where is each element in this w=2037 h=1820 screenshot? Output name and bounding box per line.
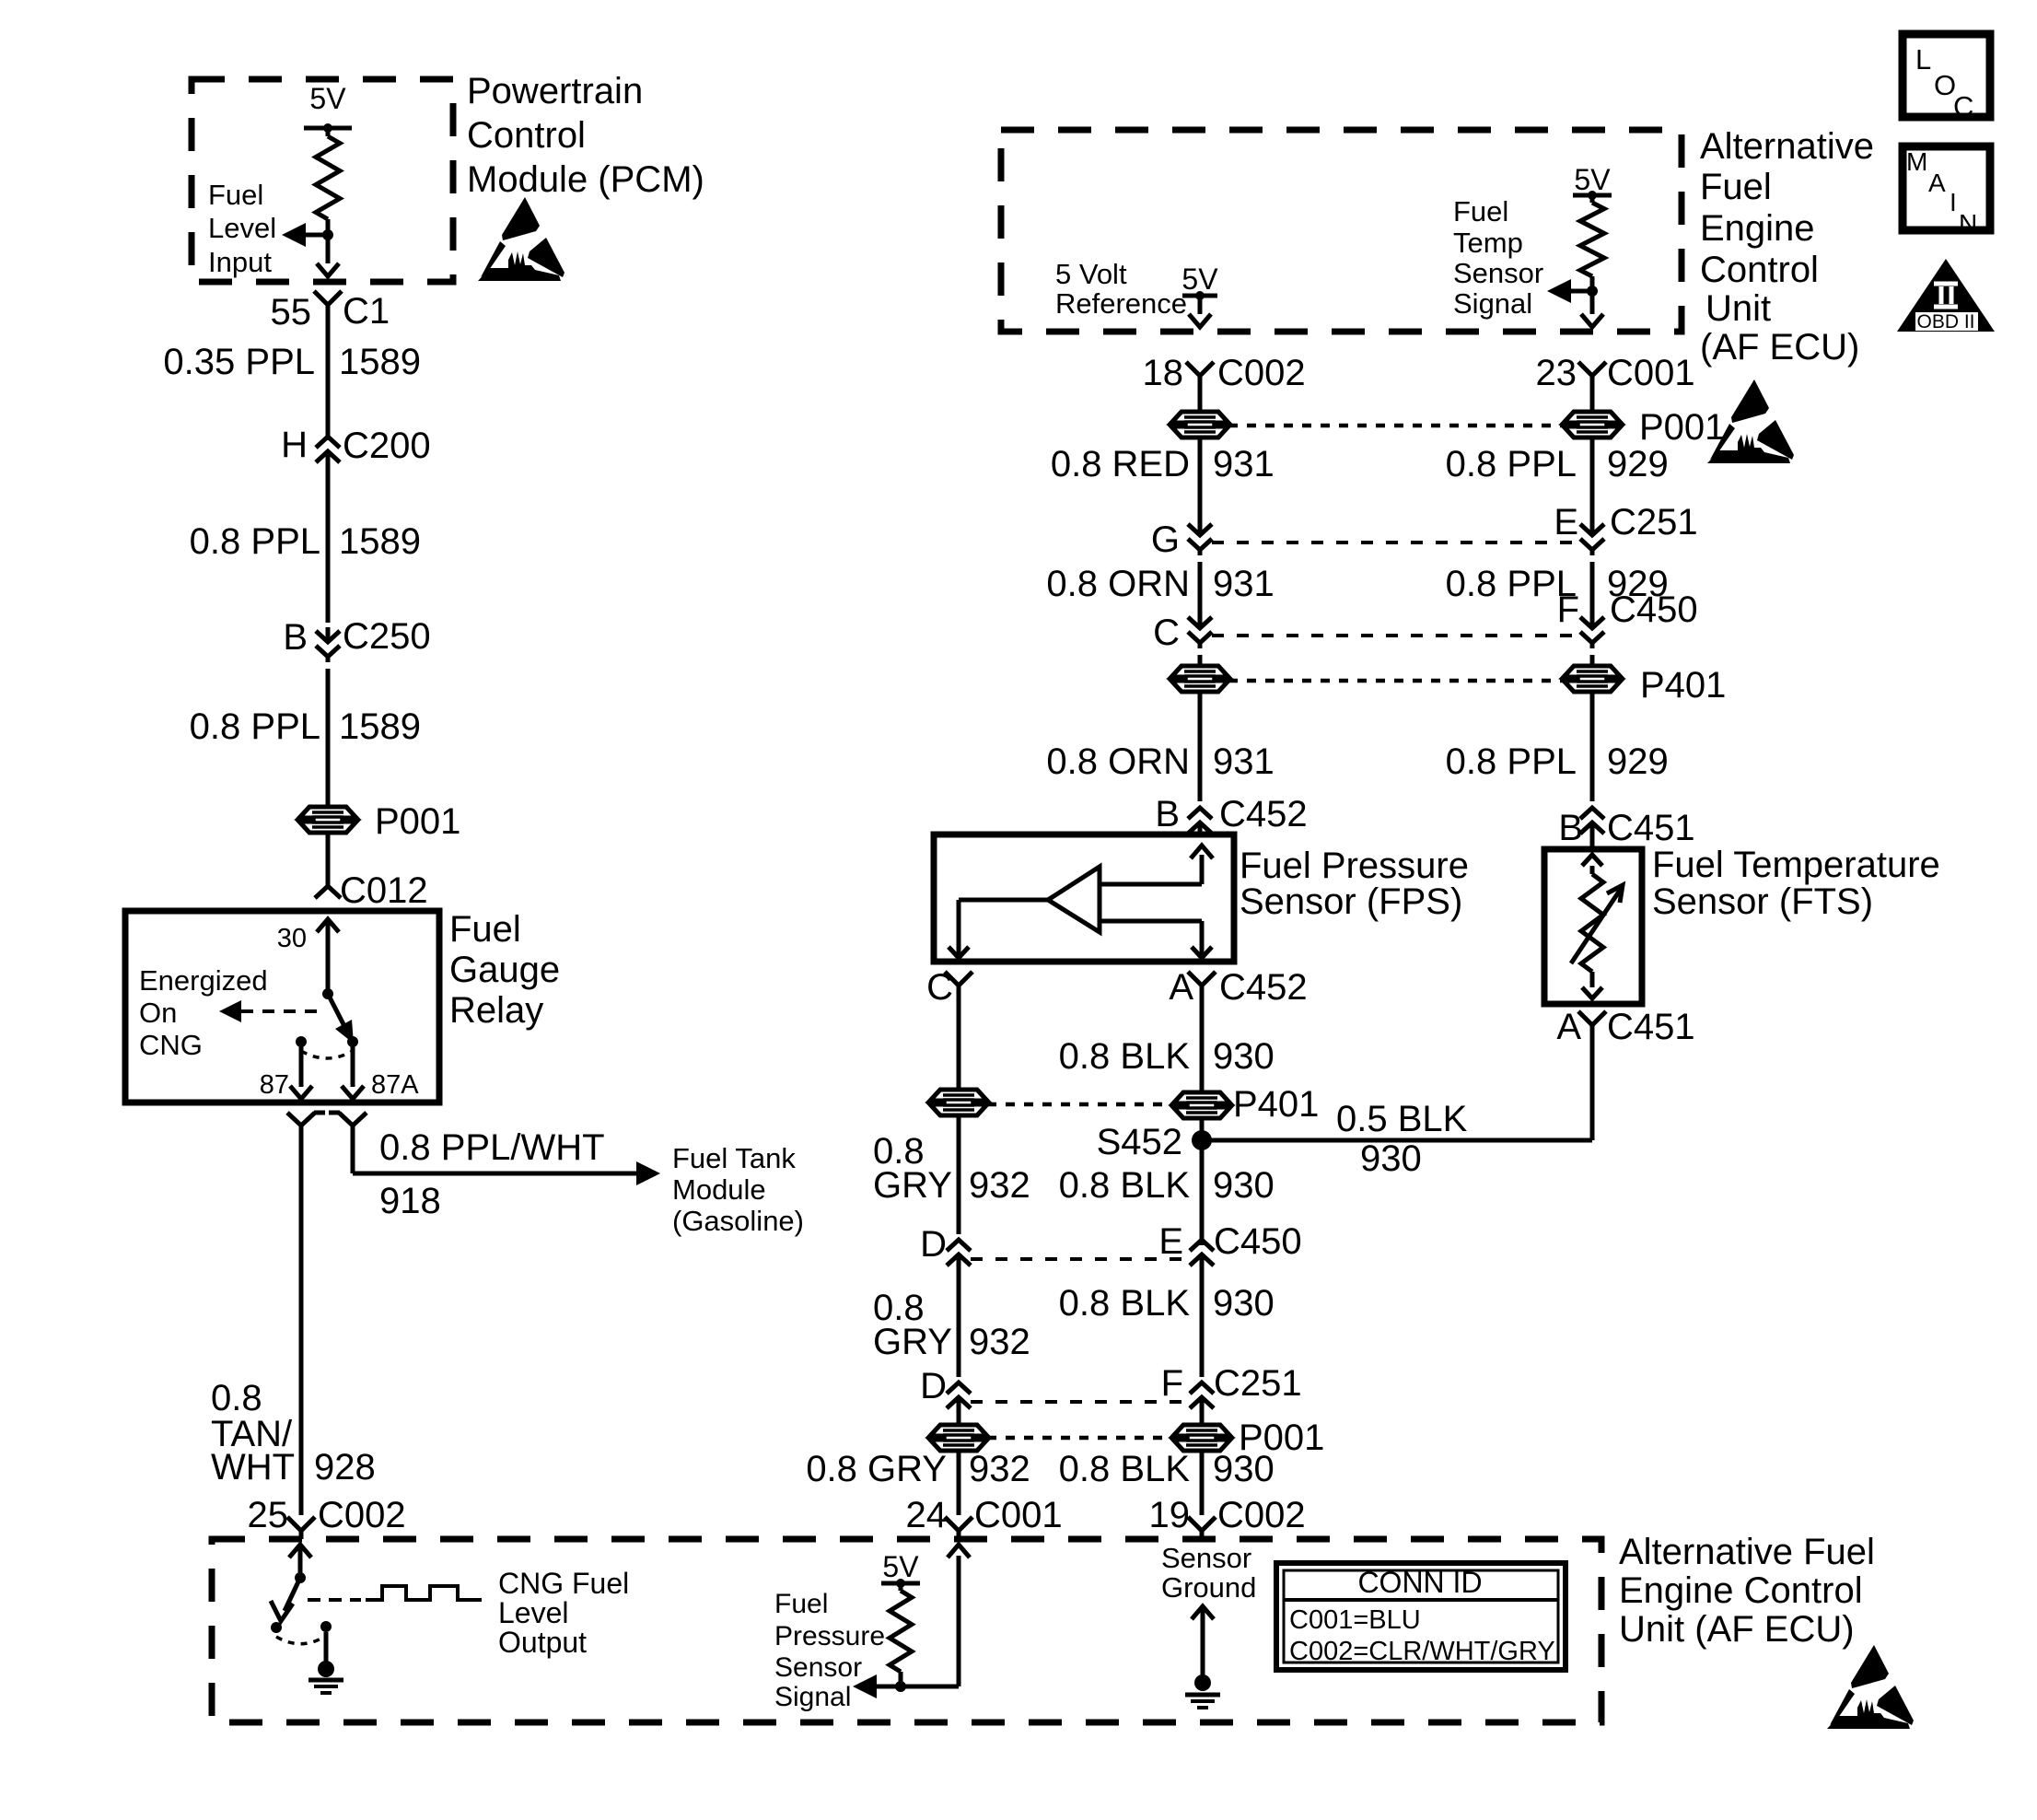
svg-text:Control: Control bbox=[467, 115, 586, 156]
svg-text:C: C bbox=[1953, 90, 1973, 122]
svg-text:931: 931 bbox=[1213, 741, 1275, 782]
svg-text:1589: 1589 bbox=[339, 342, 421, 382]
svg-text:Reference: Reference bbox=[1055, 287, 1187, 320]
svg-text:C001=BLU: C001=BLU bbox=[1289, 1605, 1421, 1635]
svg-text:929: 929 bbox=[1607, 741, 1669, 782]
svg-text:24: 24 bbox=[906, 1495, 948, 1535]
svg-text:C251: C251 bbox=[1214, 1363, 1302, 1404]
svg-text:P401: P401 bbox=[1640, 665, 1726, 706]
svg-text:19: 19 bbox=[1149, 1495, 1191, 1535]
svg-text:GRY: GRY bbox=[873, 1322, 952, 1362]
svg-text:Sensor: Sensor bbox=[1161, 1542, 1251, 1574]
svg-text:Fuel: Fuel bbox=[208, 179, 263, 211]
svg-text:Relay: Relay bbox=[449, 990, 543, 1031]
svg-text:918: 918 bbox=[379, 1181, 441, 1221]
svg-text:Level: Level bbox=[208, 212, 276, 244]
svg-text:Output: Output bbox=[498, 1626, 587, 1659]
svg-text:0.8 BLK: 0.8 BLK bbox=[1059, 1165, 1191, 1206]
svg-text:1589: 1589 bbox=[339, 521, 421, 562]
svg-text:5V: 5V bbox=[1181, 262, 1218, 296]
svg-text:Level: Level bbox=[498, 1596, 569, 1629]
svg-text:932: 932 bbox=[969, 1322, 1030, 1362]
svg-text:A: A bbox=[1169, 967, 1193, 1008]
svg-text:C002: C002 bbox=[318, 1495, 406, 1535]
svg-text:C012: C012 bbox=[340, 870, 428, 911]
svg-text:87: 87 bbox=[260, 1070, 289, 1100]
svg-text:Unit (AF ECU): Unit (AF ECU) bbox=[1619, 1609, 1855, 1650]
svg-text:23: 23 bbox=[1536, 353, 1577, 393]
svg-text:CONN ID: CONN ID bbox=[1357, 1566, 1482, 1599]
svg-text:0.8 GRY: 0.8 GRY bbox=[806, 1449, 947, 1489]
svg-text:25: 25 bbox=[248, 1495, 289, 1535]
svg-text:Energized: Energized bbox=[139, 964, 268, 997]
svg-text:Sensor (FTS): Sensor (FTS) bbox=[1652, 881, 1873, 922]
svg-text:C200: C200 bbox=[343, 426, 431, 466]
svg-text:5V: 5V bbox=[882, 1550, 919, 1583]
svg-text:Sensor: Sensor bbox=[774, 1652, 862, 1683]
svg-text:0.8: 0.8 bbox=[211, 1378, 262, 1418]
svg-text:Alternative: Alternative bbox=[1700, 126, 1874, 167]
svg-text:Fuel: Fuel bbox=[1453, 195, 1508, 227]
svg-text:A: A bbox=[1556, 1007, 1581, 1047]
svg-text:Fuel: Fuel bbox=[449, 909, 521, 950]
svg-text:C452: C452 bbox=[1219, 967, 1308, 1008]
svg-text:P001: P001 bbox=[375, 801, 460, 842]
svg-text:C002: C002 bbox=[1217, 353, 1306, 393]
svg-text:Gauge: Gauge bbox=[449, 950, 560, 990]
svg-text:931: 931 bbox=[1213, 564, 1275, 604]
svg-text:C451: C451 bbox=[1607, 808, 1695, 848]
svg-text:Input: Input bbox=[208, 246, 272, 278]
svg-text:Fuel Pressure: Fuel Pressure bbox=[1240, 846, 1469, 886]
svg-text:C452: C452 bbox=[1219, 794, 1308, 834]
svg-text:C001: C001 bbox=[974, 1495, 1063, 1535]
svg-text:0.8 RED: 0.8 RED bbox=[1051, 444, 1190, 484]
svg-text:OBD II: OBD II bbox=[1916, 311, 1974, 332]
svg-text:CNG: CNG bbox=[139, 1029, 203, 1061]
svg-text:(AF ECU): (AF ECU) bbox=[1700, 327, 1859, 367]
svg-text:E: E bbox=[1158, 1221, 1183, 1262]
svg-text:931: 931 bbox=[1213, 444, 1275, 484]
svg-text:0.35 PPL: 0.35 PPL bbox=[163, 342, 315, 382]
svg-text:L: L bbox=[1915, 43, 1931, 76]
svg-text:D: D bbox=[920, 1366, 947, 1406]
svg-text:0.8 PPL/WHT: 0.8 PPL/WHT bbox=[379, 1127, 605, 1168]
svg-text:930: 930 bbox=[1213, 1283, 1275, 1324]
svg-text:932: 932 bbox=[969, 1449, 1030, 1489]
svg-text:Fuel: Fuel bbox=[774, 1589, 828, 1619]
svg-text:D: D bbox=[920, 1224, 947, 1265]
svg-text:929: 929 bbox=[1607, 444, 1669, 484]
svg-text:N: N bbox=[1959, 209, 1977, 238]
svg-text:G: G bbox=[1151, 519, 1180, 560]
svg-text:H: H bbox=[281, 425, 308, 465]
svg-text:F: F bbox=[1161, 1363, 1183, 1404]
svg-text:930: 930 bbox=[1213, 1165, 1275, 1206]
svg-text:Pressure: Pressure bbox=[774, 1621, 885, 1651]
svg-text:930: 930 bbox=[1213, 1036, 1275, 1077]
svg-text:18: 18 bbox=[1143, 353, 1184, 393]
svg-text:Alternative Fuel: Alternative Fuel bbox=[1619, 1532, 1875, 1572]
svg-text:Signal: Signal bbox=[774, 1682, 851, 1712]
svg-text:GRY: GRY bbox=[873, 1165, 952, 1206]
svg-text:Module (PCM): Module (PCM) bbox=[467, 159, 704, 200]
svg-text:P401: P401 bbox=[1233, 1084, 1319, 1125]
svg-text:Fuel: Fuel bbox=[1700, 167, 1772, 207]
svg-text:Engine: Engine bbox=[1700, 208, 1815, 249]
svg-text:(Gasoline): (Gasoline) bbox=[672, 1205, 804, 1237]
svg-text:Temp: Temp bbox=[1453, 227, 1523, 259]
svg-text:S452: S452 bbox=[1097, 1122, 1182, 1162]
svg-text:5V: 5V bbox=[309, 82, 346, 115]
svg-text:0.8 PPL: 0.8 PPL bbox=[190, 706, 320, 747]
svg-text:C1: C1 bbox=[343, 291, 390, 332]
svg-text:1589: 1589 bbox=[339, 706, 421, 747]
svg-text:30: 30 bbox=[277, 924, 307, 953]
svg-text:0.5 BLK: 0.5 BLK bbox=[1336, 1099, 1468, 1139]
svg-text:5 Volt: 5 Volt bbox=[1055, 258, 1127, 290]
svg-text:CNG Fuel: CNG Fuel bbox=[498, 1567, 629, 1600]
svg-text:930: 930 bbox=[1360, 1138, 1422, 1179]
svg-text:C: C bbox=[1153, 612, 1180, 653]
svg-text:0.8 PPL: 0.8 PPL bbox=[1446, 444, 1577, 484]
svg-text:C: C bbox=[926, 967, 953, 1008]
svg-text:930: 930 bbox=[1213, 1449, 1275, 1489]
svg-text:B: B bbox=[1558, 808, 1583, 848]
svg-text:Sensor: Sensor bbox=[1453, 257, 1543, 289]
svg-text:E: E bbox=[1554, 502, 1578, 542]
svg-text:C251: C251 bbox=[1610, 502, 1698, 542]
svg-text:Powertrain: Powertrain bbox=[467, 71, 643, 111]
svg-text:0.8 BLK: 0.8 BLK bbox=[1059, 1036, 1191, 1077]
svg-text:0.8 ORN: 0.8 ORN bbox=[1046, 564, 1190, 604]
svg-text:Control: Control bbox=[1700, 250, 1819, 290]
svg-text:Unit: Unit bbox=[1705, 288, 1771, 329]
svg-text:C450: C450 bbox=[1610, 589, 1698, 630]
svg-text:F: F bbox=[1557, 589, 1579, 630]
svg-text:B: B bbox=[283, 617, 308, 658]
svg-text:Fuel Tank: Fuel Tank bbox=[672, 1142, 796, 1174]
svg-text:Module: Module bbox=[672, 1173, 766, 1206]
svg-text:A: A bbox=[1928, 169, 1946, 197]
svg-text:C250: C250 bbox=[343, 616, 431, 657]
svg-text:M: M bbox=[1906, 147, 1927, 176]
svg-text:Signal: Signal bbox=[1453, 287, 1532, 320]
svg-text:C002: C002 bbox=[1217, 1495, 1306, 1535]
svg-text:Engine Control: Engine Control bbox=[1619, 1570, 1863, 1611]
svg-text:P001: P001 bbox=[1639, 407, 1725, 448]
svg-text:0.8 ORN: 0.8 ORN bbox=[1046, 741, 1190, 782]
svg-text:C001: C001 bbox=[1607, 353, 1695, 393]
svg-text:87A: 87A bbox=[371, 1070, 419, 1100]
svg-text:0.8 BLK: 0.8 BLK bbox=[1059, 1283, 1191, 1324]
svg-text:932: 932 bbox=[969, 1165, 1030, 1206]
svg-text:0.8 PPL: 0.8 PPL bbox=[1446, 741, 1577, 782]
svg-text:On: On bbox=[139, 997, 177, 1029]
svg-text:C002=CLR/WHT/GRY: C002=CLR/WHT/GRY bbox=[1289, 1637, 1555, 1666]
svg-text:Fuel Temperature: Fuel Temperature bbox=[1652, 845, 1940, 885]
svg-text:0.8 PPL: 0.8 PPL bbox=[190, 521, 320, 562]
svg-text:928: 928 bbox=[314, 1447, 376, 1487]
svg-text:C450: C450 bbox=[1214, 1221, 1302, 1262]
svg-text:55: 55 bbox=[271, 292, 312, 332]
svg-text:B: B bbox=[1155, 794, 1180, 834]
svg-text:C451: C451 bbox=[1607, 1007, 1695, 1047]
svg-text:0.8 BLK: 0.8 BLK bbox=[1059, 1449, 1191, 1489]
svg-text:WHT: WHT bbox=[211, 1447, 295, 1487]
svg-text:Ground: Ground bbox=[1161, 1571, 1256, 1604]
svg-text:Sensor (FPS): Sensor (FPS) bbox=[1240, 881, 1462, 922]
svg-text:I: I bbox=[1950, 188, 1957, 216]
